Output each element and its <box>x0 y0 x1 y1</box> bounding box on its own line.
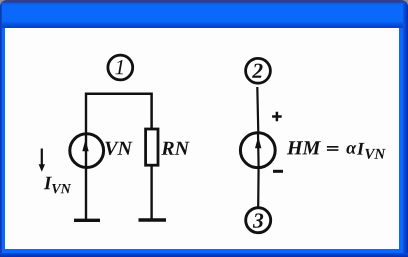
node 2 <box>246 58 271 83</box>
wire left vertical <box>85 93 87 220</box>
wire right vertical lower <box>150 166 152 219</box>
current arrow I_VN <box>39 149 45 172</box>
label HM = alpha I_VN <box>287 141 386 159</box>
wire node2 to source <box>257 87 258 133</box>
current source HM <box>240 133 275 168</box>
wire top horizontal <box>86 92 152 95</box>
label plus <box>272 112 282 122</box>
node 1 <box>108 55 133 80</box>
wire right vertical upper <box>150 93 153 130</box>
label VN <box>105 142 132 155</box>
ground right <box>139 218 167 221</box>
node 3 <box>246 208 271 233</box>
resistor RN <box>146 129 158 165</box>
label RN <box>161 142 189 155</box>
label minus <box>273 170 283 173</box>
label I_VN <box>44 177 71 194</box>
ground left <box>74 219 100 222</box>
wire source to node3 <box>257 166 260 207</box>
current source VN <box>70 134 104 168</box>
